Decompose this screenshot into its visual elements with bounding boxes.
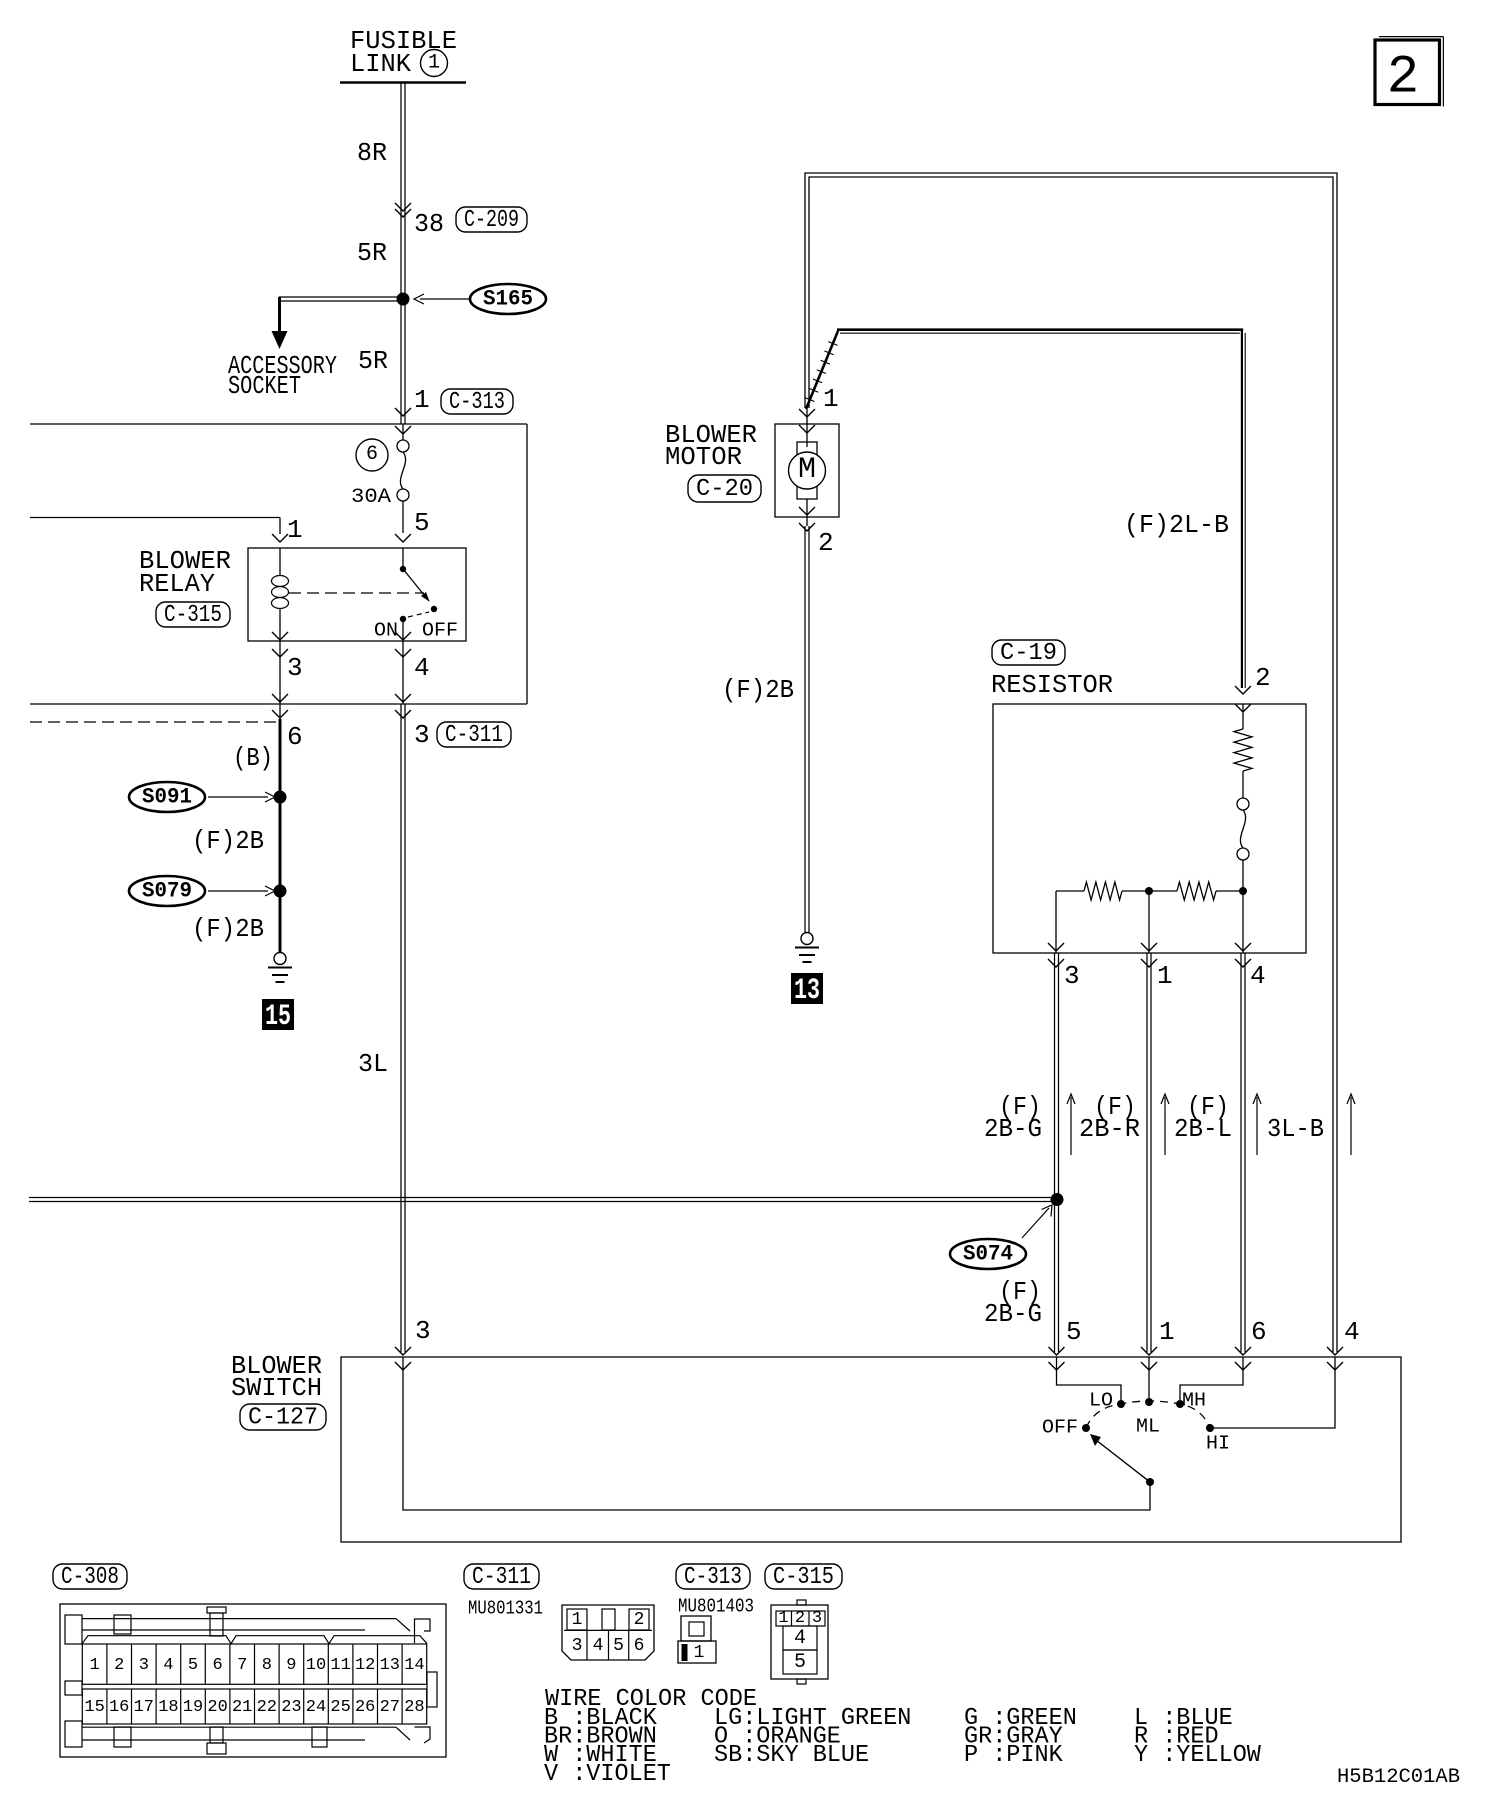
ground symbol left (268, 953, 292, 983)
switch pin 3 chevrons (395, 1347, 411, 1370)
svg-text:C-313: C-313 (449, 389, 505, 416)
resistor wire pin3 (1055, 891, 1057, 953)
splice S165 arrow (414, 294, 470, 304)
label wire B (233, 743, 273, 773)
svg-text:S079: S079 (142, 879, 192, 904)
connector C-315 caption (765, 1564, 842, 1591)
relay pin 4 chevrons (395, 632, 411, 657)
ground symbol motor (795, 933, 819, 963)
fusible link bus bar (340, 81, 466, 84)
ground wire black (279, 719, 282, 952)
svg-text:6: 6 (634, 1636, 645, 1656)
switch dashed arc (1086, 1401, 1210, 1428)
relay OFF contact (431, 606, 437, 612)
label resistor pin 3 (1064, 961, 1080, 991)
svg-text:HI: HI (1206, 1433, 1230, 1455)
label wire F2B upper (192, 826, 264, 856)
connector C-313 label (441, 389, 513, 416)
label F 2B-G lower (984, 1277, 1042, 1329)
splice S165 label (470, 284, 546, 314)
svg-text:3L-B: 3L-B (1267, 1114, 1324, 1144)
wire long feed left (29, 1198, 1056, 1202)
wire color code table (544, 1705, 1261, 1788)
svg-text:C-315: C-315 (164, 602, 222, 629)
connector C-315 label (156, 602, 230, 629)
drawing number (1337, 1766, 1460, 1789)
svg-text:26: 26 (355, 1698, 375, 1717)
motor commutator (797, 442, 817, 499)
label switch pin 3 (415, 1316, 431, 1346)
resistor element R2 horizontal (1149, 882, 1243, 900)
svg-text:11: 11 (330, 1656, 350, 1675)
svg-text:C-313: C-313 (684, 1564, 742, 1591)
svg-text:10: 10 (306, 1656, 326, 1675)
connector C-127 label (240, 1404, 326, 1431)
svg-text:16: 16 (109, 1698, 129, 1717)
resistor pin3 chevrons (1048, 943, 1064, 967)
blower relay box (248, 548, 466, 641)
svg-text:5R: 5R (358, 346, 388, 376)
svg-text:13: 13 (794, 974, 820, 1008)
svg-text:14: 14 (404, 1656, 424, 1675)
svg-text:Y :YELLOW: Y :YELLOW (1134, 1742, 1261, 1769)
switch wire pin3 internal (403, 1357, 1150, 1510)
svg-text:4: 4 (593, 1636, 604, 1656)
svg-text:3L: 3L (358, 1049, 388, 1079)
svg-text:3: 3 (812, 1609, 822, 1628)
svg-text:2B-G: 2B-G (984, 1299, 1042, 1329)
svg-text:1: 1 (778, 1609, 788, 1628)
connector C-311 caption (464, 1564, 539, 1591)
fuse rating 30A (351, 486, 391, 509)
resistor node pin4 (1239, 887, 1247, 895)
flow arrow 1 (1067, 1094, 1075, 1155)
wire color code title (545, 1686, 757, 1713)
label F2L-B (1124, 510, 1229, 540)
svg-text:20: 20 (207, 1698, 227, 1717)
resistor node pin1 (1145, 887, 1153, 895)
svg-text:4: 4 (163, 1656, 173, 1675)
relay label OFF (422, 620, 458, 642)
dashed junction block edge (30, 721, 278, 723)
svg-text:6: 6 (212, 1656, 222, 1675)
connector C-209 inline chevrons (395, 203, 411, 217)
blower switch box (341, 1357, 1401, 1542)
svg-text:19: 19 (183, 1698, 203, 1717)
svg-text:C-315: C-315 (773, 1564, 834, 1591)
svg-text:7: 7 (237, 1656, 247, 1675)
label F2B motor (722, 675, 794, 705)
svg-text:3: 3 (572, 1636, 583, 1656)
relay label ON (374, 620, 398, 642)
flow arrow 4 (1347, 1094, 1355, 1155)
motor pin 1 wire (806, 408, 808, 447)
switch contact MH (1176, 1400, 1184, 1408)
label OFF (1042, 1417, 1078, 1439)
connector C-311 housing (562, 1605, 654, 1660)
svg-text:6: 6 (366, 443, 378, 466)
label 3L-B (1267, 1114, 1324, 1144)
flow arrow 3 (1253, 1094, 1261, 1155)
flow arrow 2 (1161, 1094, 1169, 1155)
svg-text:ON: ON (374, 620, 398, 642)
svg-text:5: 5 (613, 1636, 624, 1656)
svg-text:C-308: C-308 (61, 1564, 119, 1591)
motor M circle (789, 452, 826, 489)
splice S074 arrow (1022, 1205, 1052, 1238)
svg-text:2: 2 (795, 1609, 805, 1628)
resistor pin 2 label (1255, 663, 1271, 693)
wire 2B-L (1241, 953, 1245, 1352)
svg-text:C-311: C-311 (472, 1564, 531, 1591)
svg-text:8: 8 (262, 1656, 272, 1675)
svg-text:8R: 8R (357, 138, 387, 168)
label relay pin 5 (414, 508, 430, 538)
label F 2B-R (1079, 1092, 1140, 1144)
svg-text:1: 1 (823, 384, 839, 414)
switch pivot dot (1146, 1478, 1154, 1486)
splice S079 label (129, 876, 205, 906)
svg-text:S165: S165 (483, 287, 533, 312)
wire feed to relay pin 1 (30, 518, 280, 535)
blower relay label (139, 546, 231, 599)
svg-text:22: 22 (257, 1698, 277, 1717)
label MH (1182, 1390, 1206, 1412)
svg-text:MU801331: MU801331 (468, 1598, 543, 1620)
resistor wire pin1 (1148, 891, 1150, 953)
resistor element R1 vertical (1234, 704, 1252, 798)
svg-text:M: M (798, 453, 816, 487)
junction block exit chevrons C-311 (395, 694, 411, 718)
connector C-311 part number (468, 1598, 543, 1620)
svg-text:2B-G: 2B-G (984, 1114, 1042, 1144)
page number box 2 (1375, 37, 1443, 109)
connector C-209 label (456, 207, 527, 234)
svg-text:(F)2B: (F)2B (192, 826, 264, 856)
svg-text:C-209: C-209 (464, 207, 519, 234)
splice S165 junction (397, 293, 410, 306)
connector C-311 label (437, 722, 511, 749)
label 8R (357, 138, 387, 168)
svg-text:2: 2 (1255, 663, 1271, 693)
svg-text:24: 24 (306, 1698, 326, 1717)
svg-text:2: 2 (114, 1656, 124, 1675)
svg-text:6: 6 (287, 722, 303, 752)
label pin 1 C-313 (414, 385, 430, 415)
connector C-308 housing (60, 1604, 446, 1757)
connector C-308 pin grid (82, 1644, 426, 1724)
wire to accessory socket (279, 297, 402, 301)
connector C-20 label (688, 475, 761, 503)
relay ON-OFF dashed (408, 612, 429, 617)
svg-text:5: 5 (188, 1656, 198, 1675)
motor pin 1 label (823, 384, 839, 414)
svg-text:4: 4 (1250, 961, 1266, 991)
svg-text:3: 3 (415, 1316, 431, 1346)
wire relay pin3 down (279, 641, 281, 719)
junction block exit chevrons pin6 (272, 694, 288, 718)
splice S079 arrow (208, 886, 275, 896)
svg-text:3: 3 (414, 720, 430, 750)
svg-text:38: 38 (414, 209, 444, 239)
connector C-313 housing (678, 1616, 716, 1663)
svg-text:SB:SKY BLUE: SB:SKY BLUE (714, 1742, 869, 1769)
svg-text:2B-L: 2B-L (1174, 1114, 1232, 1144)
label 5R lower (358, 346, 388, 376)
label HI (1206, 1433, 1230, 1455)
switch contact ML (1145, 1398, 1153, 1406)
resistor pin4 chevrons (1235, 943, 1251, 967)
motor pin 1 chevrons (799, 409, 815, 433)
svg-text:15: 15 (84, 1698, 104, 1717)
label F 2B-L (1174, 1092, 1232, 1144)
svg-text:30A: 30A (351, 486, 391, 509)
switch wire pin1 internal (1148, 1357, 1150, 1402)
svg-text:C-311: C-311 (445, 722, 503, 749)
svg-text:28: 28 (404, 1698, 424, 1717)
svg-text:P :PINK: P :PINK (964, 1742, 1063, 1769)
svg-text:1: 1 (428, 52, 440, 75)
splice S079 junction (274, 885, 287, 898)
connector C-308 label (53, 1564, 127, 1591)
wire 2B-G (1055, 953, 1059, 1352)
relay actuation dashed link (289, 592, 424, 594)
connector C-315 housing (771, 1600, 828, 1684)
svg-text:(F)2L-B: (F)2L-B (1124, 510, 1229, 540)
resistor label (991, 670, 1113, 700)
fusible link circled 1 (421, 50, 448, 77)
wire 2B-R (1147, 953, 1151, 1352)
connector C-313 caption (676, 1564, 750, 1591)
svg-text:17: 17 (134, 1698, 154, 1717)
wire motor ground (805, 526, 809, 932)
svg-text:1: 1 (89, 1656, 99, 1675)
svg-text:(B): (B) (233, 743, 273, 773)
svg-text:3: 3 (139, 1656, 149, 1675)
splice S091 label (129, 782, 205, 812)
svg-text:OFF: OFF (1042, 1417, 1078, 1439)
svg-text:1: 1 (287, 515, 303, 545)
switch contact LO (1117, 1400, 1125, 1408)
svg-text:1: 1 (572, 1610, 583, 1630)
relay pin 3 chevrons (272, 632, 288, 657)
svg-text:6: 6 (1251, 1317, 1267, 1347)
ground ref box 15 (262, 999, 294, 1034)
svg-text:RELAY: RELAY (139, 569, 215, 599)
svg-text:1: 1 (1159, 1317, 1175, 1347)
svg-text:5R: 5R (357, 238, 387, 268)
svg-text:MU801403: MU801403 (678, 1596, 754, 1618)
svg-text:9: 9 (286, 1656, 296, 1675)
fusible link label (350, 26, 457, 79)
label pin 38 (414, 209, 444, 239)
wire feed loop to switch pin 4 (805, 173, 1337, 1352)
connector C-313 part number (678, 1596, 754, 1618)
label pin 6 (287, 722, 303, 752)
svg-text:23: 23 (281, 1698, 301, 1717)
svg-text:5: 5 (794, 1651, 806, 1674)
resistor box (993, 704, 1306, 953)
accessory socket label (228, 351, 337, 401)
relay pin 1 chevron (272, 534, 288, 542)
switch wire pin4 internal (1214, 1357, 1335, 1428)
svg-text:2B-R: 2B-R (1079, 1114, 1140, 1144)
blower motor label (665, 420, 757, 472)
svg-text:5: 5 (414, 508, 430, 538)
wire 8R/5R vertical feed (401, 83, 405, 424)
svg-text:3: 3 (287, 653, 303, 683)
blower motor box (775, 424, 839, 517)
motor pin 2 chevrons (799, 507, 815, 531)
switch wiper arm (1090, 1434, 1150, 1482)
svg-text:13: 13 (380, 1656, 400, 1675)
connector C-313 chevrons (395, 408, 411, 434)
svg-text:1: 1 (1157, 961, 1173, 991)
connector C-308 housing bottom (82, 1672, 437, 1754)
svg-text:C-19: C-19 (1000, 640, 1057, 667)
svg-text:OFF: OFF (422, 620, 458, 642)
label pin 3 C-311 (414, 720, 430, 750)
label relay pin 1 (287, 515, 303, 545)
resistor wire pin4 (1242, 891, 1244, 953)
switch wire pin5 internal (1057, 1357, 1122, 1402)
wire feed to resistor pin 2 (805, 330, 1245, 688)
fuse number circle 6 (356, 439, 388, 471)
label switch pin 5 (1066, 1317, 1082, 1347)
svg-text:25: 25 (330, 1698, 350, 1717)
svg-text:27: 27 (380, 1698, 400, 1717)
relay ON contact (400, 616, 406, 641)
motor pin 2 label (818, 528, 834, 558)
svg-text:S074: S074 (963, 1242, 1013, 1267)
svg-text:21: 21 (232, 1698, 252, 1717)
svg-text:12: 12 (355, 1656, 375, 1675)
svg-text:2: 2 (634, 1610, 645, 1630)
resistor element R3 horizontal (1056, 882, 1149, 900)
svg-text:SWITCH: SWITCH (231, 1373, 322, 1403)
svg-text:18: 18 (158, 1698, 178, 1717)
junction block box (30, 424, 527, 704)
label 5R (357, 238, 387, 268)
label resistor pin 1 (1157, 961, 1173, 991)
svg-text:2: 2 (1387, 48, 1419, 109)
label wire F2B lower (192, 914, 264, 944)
resistor pin1 chevrons (1141, 943, 1157, 967)
svg-text:2: 2 (818, 528, 834, 558)
svg-text:5: 5 (1066, 1317, 1082, 1347)
ground ref box 13 (791, 973, 823, 1008)
label switch pin 6 (1251, 1317, 1267, 1347)
label resistor pin 4 (1250, 961, 1266, 991)
label relay pin 4 (414, 653, 430, 683)
label 3L (358, 1049, 388, 1079)
wire relay pin4 down (402, 641, 404, 704)
svg-text:MOTOR: MOTOR (665, 442, 742, 472)
relay switch arm (403, 569, 430, 602)
relay switch common contact (400, 548, 406, 572)
fuse wire upper (402, 424, 404, 440)
svg-text:H5B12C01AB: H5B12C01AB (1337, 1766, 1460, 1789)
splice S091 junction (274, 791, 287, 804)
label F 2B-G (984, 1092, 1042, 1144)
svg-text:C-20: C-20 (696, 476, 753, 503)
splice S074 label (950, 1239, 1026, 1269)
svg-text:SOCKET: SOCKET (228, 371, 301, 401)
relay coil (272, 548, 289, 641)
svg-text:RESISTOR: RESISTOR (991, 670, 1113, 700)
label relay pin 3 (287, 653, 303, 683)
svg-text:1: 1 (414, 385, 430, 415)
splice S091 arrow (208, 792, 275, 802)
svg-text:MH: MH (1182, 1390, 1206, 1412)
svg-text:(F)2B: (F)2B (192, 914, 264, 944)
fuse symbol (397, 440, 409, 533)
switch pin 6 chevrons (1235, 1347, 1251, 1370)
svg-text:15: 15 (265, 1000, 291, 1034)
svg-text:3: 3 (1064, 961, 1080, 991)
label switch pin 4 (1344, 1317, 1360, 1347)
accessory socket arrowhead (272, 331, 288, 349)
svg-text:C-127: C-127 (248, 1404, 318, 1431)
label switch pin 1 (1159, 1317, 1175, 1347)
svg-text:LINK: LINK (350, 49, 411, 79)
svg-text:1: 1 (694, 1643, 705, 1663)
label ML (1136, 1416, 1160, 1438)
svg-text:V :VIOLET: V :VIOLET (544, 1761, 671, 1788)
switch pin 4 chevrons (1327, 1347, 1343, 1370)
switch wire pin6 internal (1180, 1357, 1243, 1402)
relay pin 5 chevron (395, 534, 411, 542)
resistor pin 2 chevrons (1235, 686, 1251, 712)
svg-text:4: 4 (1344, 1317, 1360, 1347)
svg-text:LO: LO (1089, 1390, 1113, 1412)
svg-text:4: 4 (414, 653, 430, 683)
svg-text:ML: ML (1136, 1416, 1160, 1438)
switch contact OFF (1082, 1424, 1090, 1432)
switch pin 1 chevrons (1141, 1347, 1157, 1370)
wire 3L (401, 704, 405, 1352)
blower switch label (231, 1351, 322, 1403)
switch contact HI (1206, 1424, 1214, 1432)
resistor thermal fuse (1237, 798, 1249, 891)
label LO (1089, 1390, 1113, 1412)
accessory socket drop wire (278, 297, 281, 332)
svg-text:4: 4 (794, 1627, 806, 1650)
splice S074 junction (1051, 1193, 1064, 1206)
switch pin 5 chevrons (1049, 1347, 1065, 1370)
svg-text:(F)2B: (F)2B (722, 675, 794, 705)
svg-text:S091: S091 (142, 785, 192, 810)
connector C-19 label (992, 640, 1065, 667)
motor pin 2 wire (806, 499, 808, 526)
